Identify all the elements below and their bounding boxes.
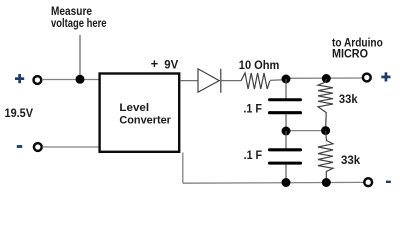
- wire: capacitor C1 to node C: [285, 114, 287, 131]
- wire: - terminal to level converter: [42, 146, 99, 148]
- svg-text:Converter: Converter: [119, 115, 171, 127]
- diode D1: [198, 69, 221, 93]
- svg-text:voltage here: voltage here: [51, 16, 107, 30]
- polarity mark - (right, blue): [386, 181, 391, 183]
- wire: node A down to capacitor C1: [285, 79, 287, 99]
- resistor R2: 33k upper zigzag: [318, 79, 333, 130]
- svg-text:10 Ohm: 10 Ohm: [239, 58, 280, 72]
- wire: node A to output + terminal: [286, 77, 363, 79]
- resistor R1: 10 Ohm zigzag: [241, 73, 270, 89]
- wire: resistor R1 to node A: [270, 79, 286, 82]
- node D: [321, 126, 330, 135]
- terminal - (output to Arduino): [364, 178, 372, 186]
- wire: node C down to capacitor C2: [285, 131, 287, 149]
- terminal + (left battery positive): [34, 76, 42, 84]
- node A: [282, 75, 291, 84]
- wire: capacitor C2 to bottom rail: [285, 164, 287, 183]
- capacitor C1: [268, 98, 302, 114]
- wire: bottom rail: [183, 181, 364, 184]
- wire: level converter return down: [182, 153, 184, 184]
- svg-text:9V: 9V: [164, 58, 178, 72]
- svg-text:+: +: [151, 56, 159, 71]
- resistor R3: 33k lower zigzag: [318, 131, 333, 182]
- polarity mark + (right, blue): [381, 72, 390, 81]
- wire: diode to resistor R1: [222, 80, 242, 82]
- node: measure point: [76, 75, 85, 84]
- label to Arduino MICRO: [332, 37, 383, 60]
- terminal + (output to Arduino): [363, 74, 371, 82]
- label: Measure voltage here: [51, 4, 107, 30]
- svg-text:19.5V: 19.5V: [5, 106, 34, 120]
- svg-text:33k: 33k: [341, 155, 361, 167]
- wire: probe line from label to node: [79, 35, 81, 79]
- svg-text:33k: 33k: [339, 94, 358, 106]
- node F: [322, 178, 331, 187]
- node B: top of R2: [322, 74, 331, 83]
- svg-text:MICRO: MICRO: [332, 49, 368, 61]
- block U1: Level Converter: [100, 74, 180, 152]
- polarity mark - (left, blue): [17, 145, 22, 148]
- wire: node C to node D (mid rail): [286, 130, 326, 132]
- capacitor C2: [268, 148, 302, 164]
- wire: level converter to diode: [180, 80, 198, 82]
- svg-text:.1 F: .1 F: [243, 104, 262, 116]
- svg-text:Level: Level: [119, 102, 149, 114]
- polarity mark + (left, blue): [15, 74, 24, 83]
- terminal - (left battery negative): [34, 143, 42, 151]
- svg-text:to Arduino: to Arduino: [332, 37, 383, 49]
- node C: [282, 127, 291, 136]
- node E: [282, 178, 291, 187]
- svg-text:.1 F: .1 F: [244, 150, 263, 162]
- wire: + terminal to level converter: [42, 79, 99, 81]
